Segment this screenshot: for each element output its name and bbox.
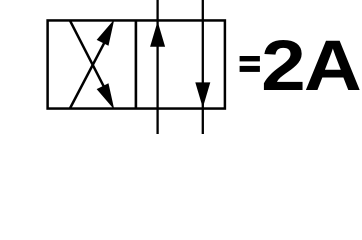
- svg-text:2: 2: [261, 26, 306, 106]
- equals sign upper bar: [240, 56, 260, 61]
- port line P (left vertical through-line): [156, 0, 158, 134]
- crossed flow path (top-left to bottom-right): [70, 20, 110, 98]
- down flow arrowhead: [195, 82, 210, 107]
- crossed flow path (bottom-left to top-right): [70, 32, 110, 109]
- valve body outline (two-position envelope): [48, 20, 225, 108]
- svg-text:A: A: [304, 26, 362, 106]
- equals sign lower bar: [240, 66, 260, 72]
- up flow arrowhead: [150, 21, 165, 46]
- port line T (right vertical through-line): [202, 0, 204, 134]
- arrowhead down-right: [97, 83, 115, 109]
- position divider: [135, 20, 138, 108]
- label 2A: [261, 26, 362, 106]
- arrowhead up-right: [97, 19, 115, 45]
